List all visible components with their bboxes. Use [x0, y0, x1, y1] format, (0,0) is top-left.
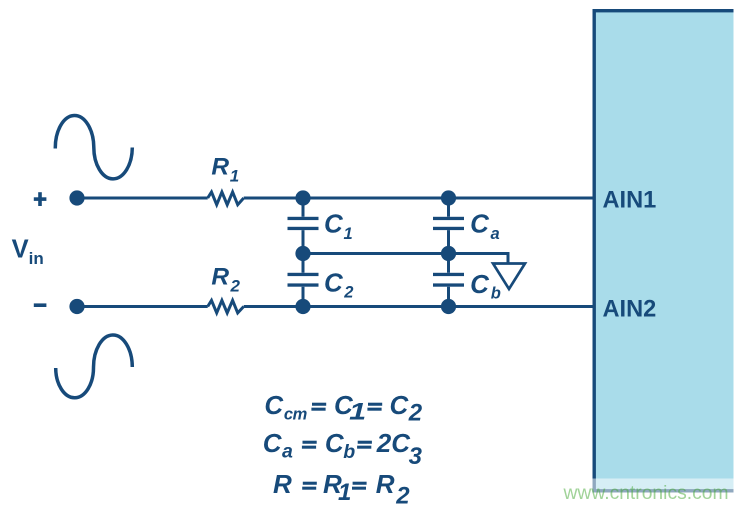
svg-text:R: R: [376, 469, 395, 499]
svg-text:2: 2: [408, 400, 423, 427]
svg-text:V: V: [12, 236, 29, 264]
svg-text:R: R: [273, 469, 292, 499]
svg-text:3: 3: [409, 443, 423, 470]
svg-text:b: b: [491, 284, 501, 302]
svg-text:C: C: [263, 428, 283, 458]
svg-text:C: C: [264, 390, 284, 420]
svg-text:a: a: [282, 441, 293, 463]
svg-text:C: C: [470, 269, 490, 299]
svg-text:2: 2: [230, 277, 241, 296]
svg-text:2C: 2C: [376, 428, 411, 458]
svg-text:in: in: [29, 249, 44, 268]
svg-text:C: C: [324, 209, 344, 239]
svg-text:AIN2: AIN2: [603, 297, 657, 323]
svg-text:C: C: [470, 209, 490, 239]
svg-text:1: 1: [349, 398, 366, 425]
svg-text:a: a: [491, 225, 500, 243]
svg-text:2: 2: [343, 284, 353, 302]
svg-text:1: 1: [230, 166, 239, 185]
svg-text:R: R: [211, 264, 229, 291]
svg-text:www.cntronics.com: www.cntronics.com: [563, 483, 729, 504]
svg-text:b: b: [343, 441, 355, 463]
svg-text:1: 1: [338, 479, 351, 506]
svg-text:2: 2: [395, 483, 410, 509]
svg-text:C: C: [325, 428, 345, 458]
svg-text:cm: cm: [284, 405, 307, 423]
svg-text:C: C: [390, 390, 410, 420]
svg-text:AIN1: AIN1: [603, 188, 657, 214]
svg-text:R: R: [211, 154, 229, 181]
svg-text:C: C: [324, 268, 344, 298]
svg-text:1: 1: [344, 225, 353, 243]
